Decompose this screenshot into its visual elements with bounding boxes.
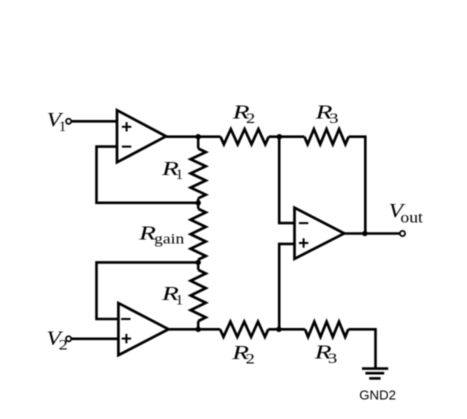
node: R2/R3 bottom junction	[276, 327, 281, 332]
node: Vout junction	[362, 231, 367, 236]
terminal Vout	[400, 231, 405, 236]
svg-text:2: 2	[246, 111, 255, 127]
svg-text:1: 1	[59, 119, 66, 135]
wire	[166, 135, 221, 138]
node: Rgain / R1 bottom junction	[196, 260, 201, 265]
resistor R3 (bottom)	[305, 322, 348, 368]
terminal V1	[66, 119, 71, 124]
svg-text:3: 3	[329, 111, 338, 127]
wire	[71, 337, 118, 340]
node: U2 output junction	[196, 327, 201, 332]
node: R1 top / Rgain junction	[196, 200, 201, 205]
resistor R2 (bottom)	[220, 322, 268, 368]
label V1	[47, 110, 66, 135]
svg-text:3: 3	[328, 351, 337, 367]
wire	[169, 328, 221, 331]
svg-text:1: 1	[176, 167, 183, 183]
resistor Rgain	[138, 203, 206, 263]
wire	[279, 135, 293, 223]
svg-text:gain: gain	[154, 231, 185, 247]
wire	[97, 262, 199, 319]
svg-text:out: out	[400, 210, 423, 227]
label V2	[47, 328, 68, 353]
wire	[71, 120, 117, 123]
resistor R3 (top)	[304, 102, 348, 145]
wire	[268, 328, 305, 331]
svg-text:GND2: GND2	[359, 388, 396, 403]
op-amp U1	[117, 110, 166, 162]
wire	[348, 329, 375, 368]
wire	[97, 147, 199, 203]
wire	[344, 232, 400, 235]
op-amp U2	[118, 303, 168, 355]
wire	[269, 135, 305, 138]
terminal V2	[66, 336, 71, 341]
label Vout	[389, 201, 424, 226]
resistor R1 (bottom)	[161, 262, 206, 329]
wire	[349, 137, 366, 234]
resistor R2 (top)	[221, 102, 269, 145]
ground GND2	[359, 369, 396, 403]
node: R2/R3 top junction	[277, 134, 282, 139]
resistor R1 (top)	[161, 135, 206, 203]
node: U1 output junction	[196, 134, 201, 139]
svg-text:1: 1	[176, 292, 183, 308]
svg-text:2: 2	[246, 352, 255, 368]
wire	[279, 244, 293, 331]
op-amp U3	[295, 208, 345, 259]
svg-text:2: 2	[59, 337, 68, 353]
